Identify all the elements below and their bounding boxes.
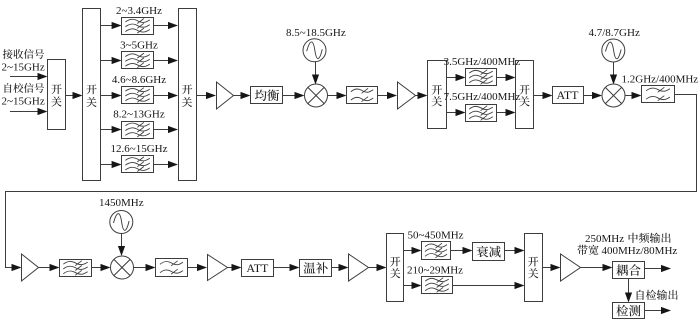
- svg-text:3~5GHz: 3~5GHz: [120, 39, 158, 51]
- wire 耦合 to detector 检测: [625, 279, 632, 303]
- oscillator LO3: [110, 211, 133, 234]
- wire K2 to filter F2: [101, 57, 122, 64]
- wire A3 to filter F9: [39, 264, 60, 271]
- wire IF output arrow: [645, 265, 672, 272]
- wire F6 to amplifier A2: [378, 92, 398, 99]
- mixer M2: [602, 84, 625, 107]
- amplifier A1: [217, 82, 234, 109]
- label 自检输出: [637, 290, 678, 300]
- wire F7b to K5: [497, 109, 516, 116]
- wire filter F2 to K3: [154, 57, 178, 64]
- wire self-check output arrow: [645, 307, 672, 314]
- wire 衰减 to K7: [505, 247, 525, 254]
- svg-text:2~15GHz: 2~15GHz: [2, 62, 45, 74]
- mixer M3: [111, 256, 134, 279]
- svg-text:ATT: ATT: [246, 261, 269, 275]
- wire F9 to mixer M3: [92, 264, 111, 271]
- wire ATT2 to 温补: [274, 264, 300, 271]
- switch K2 开关: [83, 9, 101, 181]
- wire F11 to attenuator 衰减: [451, 247, 473, 254]
- bandpass filter F2 3~5GHz: [122, 52, 154, 69]
- bandpass filter F12: [422, 277, 453, 294]
- wire M2 to filter F8: [625, 92, 642, 99]
- svg-text:250MHz: 250MHz: [585, 233, 624, 245]
- switch K5 开关: [516, 61, 534, 129]
- wire A2 to K4: [416, 92, 428, 99]
- oscillator LO1: [303, 39, 326, 62]
- bandpass filter F9: [60, 260, 92, 277]
- attenuator ATT1: [553, 87, 584, 104]
- bandpass filter F3 4.6~8.6GHz: [122, 87, 154, 104]
- wire A6 to coupler 耦合: [581, 264, 613, 271]
- wire F10 to amplifier A4: [188, 264, 208, 271]
- bandpass filter F1 2~3.4GHz: [122, 18, 154, 35]
- svg-text:1450MHz: 1450MHz: [99, 197, 144, 209]
- oscillator LO2: [602, 39, 625, 62]
- bandpass filter F8: [642, 86, 675, 103]
- output label 250MHz 中频输出: [585, 233, 671, 245]
- svg-text:3.5GHz/400MHz: 3.5GHz/400MHz: [444, 56, 521, 68]
- svg-text:2~3.4GHz: 2~3.4GHz: [116, 5, 162, 17]
- output label 带宽 400MHz/80MHz: [577, 245, 677, 257]
- switch K3 开关: [179, 9, 197, 181]
- svg-text:210~29MHz: 210~29MHz: [407, 264, 463, 276]
- wire input arrow (自校信号): [10, 108, 48, 115]
- wire A5 to K6: [369, 264, 387, 271]
- wire K4 to filter F7b: [447, 109, 466, 116]
- wire input arrow (接收信号): [10, 73, 48, 80]
- wire LO1 to M1: [312, 61, 319, 84]
- svg-text:4.7/8.7GHz: 4.7/8.7GHz: [589, 27, 640, 39]
- wire LO3 to M3: [118, 234, 125, 257]
- mixer M1: [305, 84, 328, 107]
- attenuator ATT2: [242, 260, 274, 277]
- wire K1 to K2: [66, 92, 83, 99]
- bandpass filter F7b: [466, 105, 497, 122]
- switch K4 开关: [428, 61, 447, 129]
- svg-text:12.6~15GHz: 12.6~15GHz: [111, 143, 168, 155]
- wire wrap arrow into A3: [8, 264, 22, 271]
- wire filter F1 to K3: [154, 22, 178, 29]
- wire F12 to K7: [453, 282, 525, 289]
- wire K2 to filter F1: [101, 22, 122, 29]
- svg-text:8.2~13GHz: 8.2~13GHz: [113, 109, 165, 121]
- bandpass filter F11: [422, 242, 451, 260]
- attenuator 衰减: [473, 243, 505, 261]
- wire equalizer to mixer M1: [283, 92, 305, 99]
- wire K5 to attenuator ATT1: [534, 92, 553, 99]
- wire K7 to amplifier A6: [543, 264, 561, 271]
- switch K1 开关: [48, 60, 66, 130]
- bandpass filter F7a: [466, 69, 497, 86]
- detector 检测: [613, 303, 645, 319]
- bandpass filter F4 8.2~13GHz: [122, 122, 154, 139]
- amplifier A3: [22, 254, 39, 281]
- wire F7a to K5: [497, 74, 516, 81]
- svg-text:50~450MHz: 50~450MHz: [408, 230, 464, 242]
- svg-text:400MHz/80MHz: 400MHz/80MHz: [602, 245, 678, 257]
- wire K3 to amplifier A1: [196, 92, 216, 99]
- wire ATT1 to mixer M2: [584, 92, 603, 99]
- wire K2 to filter F4: [101, 126, 122, 133]
- svg-text:4.6~8.6GHz: 4.6~8.6GHz: [112, 74, 166, 86]
- svg-text:8.5~18.5GHz: 8.5~18.5GHz: [286, 27, 346, 39]
- svg-text:7.5GHz/400MHz: 7.5GHz/400MHz: [444, 91, 521, 103]
- svg-text:1.2GHz/400MHz: 1.2GHz/400MHz: [622, 74, 699, 86]
- amplifier A2: [398, 82, 416, 109]
- wire K6 to filter F11: [404, 247, 422, 254]
- switch K6 开关: [387, 234, 404, 302]
- wire M3 to filter F10: [134, 264, 156, 271]
- switch K7 开关: [525, 234, 543, 302]
- wire 温补 to amplifier A5: [332, 264, 349, 271]
- wire K6 to filter F12: [404, 282, 422, 289]
- bandpass filter F5 12.6~15GHz: [122, 156, 154, 173]
- wire LO2 to M2: [610, 62, 617, 85]
- svg-text:2~15GHz: 2~15GHz: [2, 96, 45, 108]
- wire A1 to equalizer: [234, 92, 251, 99]
- wire K2 to filter F5: [101, 161, 122, 168]
- amplifier A6: [561, 254, 581, 281]
- bandpass filter F10: [156, 259, 188, 277]
- wire M1 to filter F6: [328, 92, 347, 99]
- coupler 耦合: [613, 262, 645, 279]
- wire row1 to row2 wraparound: [6, 95, 697, 268]
- wire filter F5 to K3: [154, 161, 178, 168]
- temp-comp 温补: [300, 260, 332, 277]
- amplifier A5: [349, 254, 369, 281]
- bandpass filter F6: [347, 87, 378, 104]
- wire filter F4 to K3: [154, 126, 178, 133]
- wire A4 to attenuator ATT2: [228, 264, 242, 271]
- svg-text:ATT: ATT: [557, 88, 580, 102]
- wire K4 to filter F7a: [447, 74, 466, 81]
- wire filter F3 to K3: [154, 92, 178, 99]
- input label 自校信号 2~15GHz: [2, 83, 45, 107]
- wire K2 to filter F3: [101, 92, 122, 99]
- equalizer 均衡: [251, 87, 283, 104]
- input label 接收信号 2~15GHz: [2, 49, 45, 73]
- amplifier A4: [208, 255, 228, 281]
